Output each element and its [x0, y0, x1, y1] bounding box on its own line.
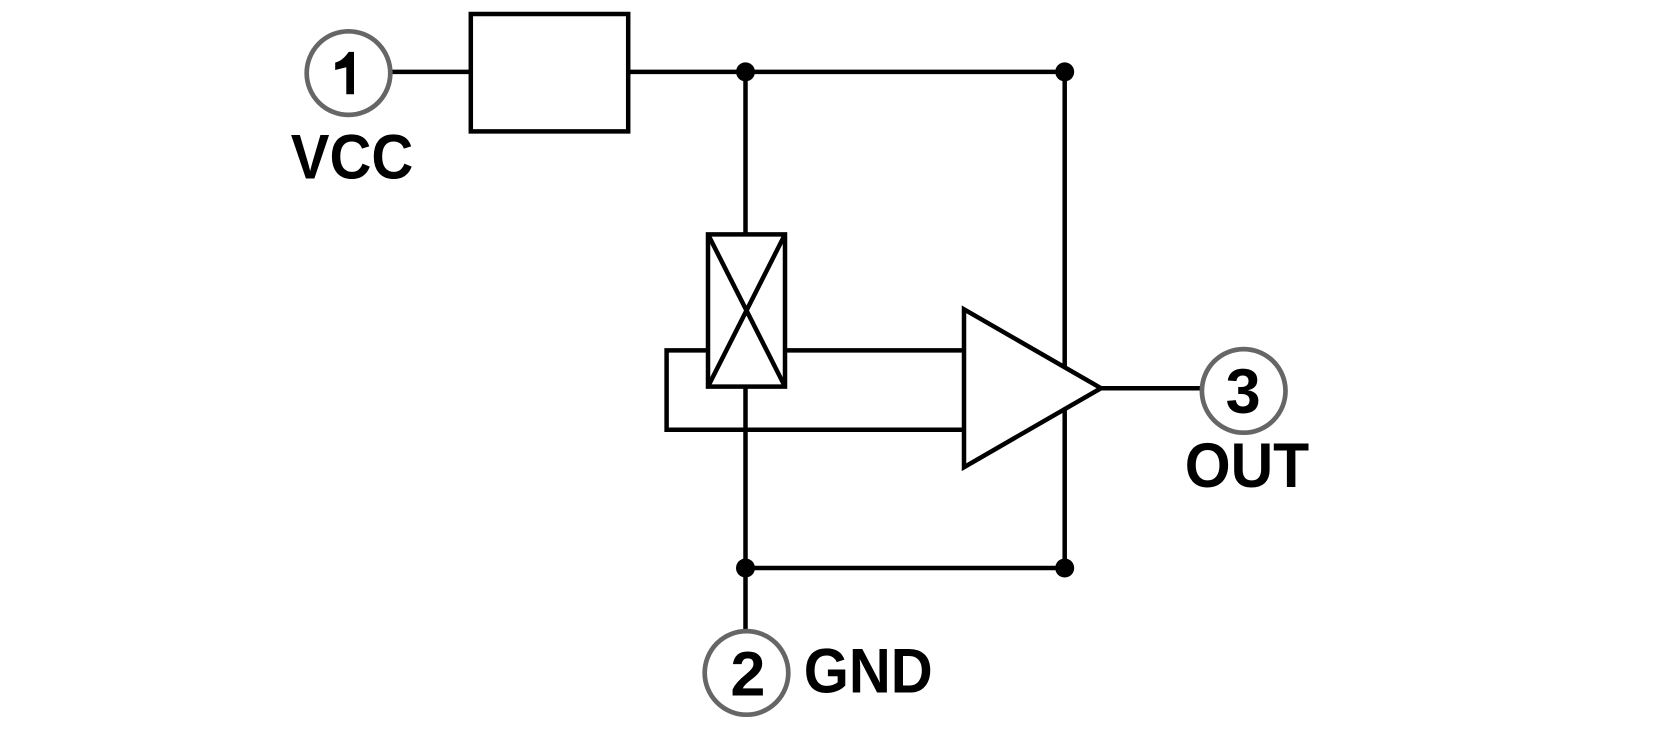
junction node GND-crystal [736, 559, 755, 578]
junction node VCC-crystal [736, 62, 755, 81]
pin 2 [705, 631, 789, 715]
pin 3 [1202, 349, 1286, 433]
wire pin1 to block [391, 70, 471, 75]
block A1 [471, 14, 628, 131]
junction node GND-right branch [1055, 559, 1074, 578]
feedback loop wire [667, 350, 964, 429]
pin 1 [307, 31, 391, 115]
svg-text:VCC: VCC [291, 123, 414, 193]
wire VCC rail block to right branch [628, 70, 1065, 75]
svg-text:3: 3 [1226, 357, 1261, 427]
crystal Y1 [708, 234, 785, 386]
svg-text:GND: GND [804, 637, 933, 707]
svg-text:OUT: OUT [1185, 431, 1310, 501]
wire buffer output to pin 3 [1101, 386, 1203, 391]
svg-text:2: 2 [730, 639, 765, 709]
wire VCC node down through crystal to GND node [743, 72, 748, 568]
wire right branch vertical [1062, 72, 1067, 568]
wire GND node to pin 2 [743, 568, 748, 630]
buffer amplifier U1 [964, 309, 1101, 467]
wire bottom GND rail [746, 566, 1065, 571]
junction node VCC-right branch [1055, 62, 1074, 81]
